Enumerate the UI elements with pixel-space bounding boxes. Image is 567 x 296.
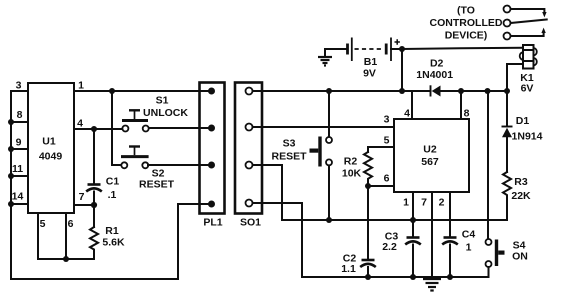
wire C1 bottom lead — [93, 192, 95, 206]
pushbutton S1 UNLOCK — [122, 95, 188, 132]
node U2 pin 8 junction — [458, 88, 464, 94]
pushbutton S4 ON — [486, 239, 528, 267]
wire S1 to PL1 pin 2 — [149, 127, 212, 129]
capacitor C1 — [86, 176, 119, 202]
diode D2 1N4001 — [402, 58, 461, 97]
svg-text:7: 7 — [421, 197, 427, 209]
svg-text:9V: 9V — [363, 68, 376, 80]
node pin8/bus junction — [8, 119, 14, 125]
svg-text:UNLOCK: UNLOCK — [143, 107, 188, 119]
resistor R3 22K — [503, 172, 531, 220]
wire U1 pin 9 stub — [11, 137, 28, 150]
wire C3 bottom lead — [412, 245, 414, 278]
wire relay NO contact — [511, 28, 546, 36]
svg-text:ON: ON — [512, 251, 528, 263]
wire SO1 pin 3 down to bus B — [253, 165, 283, 220]
wire relay NC contact — [511, 9, 547, 17]
wire U1 pin 1 to PL1 pin 1 — [74, 80, 212, 92]
wire C2 bottom lead — [367, 267, 369, 277]
wire left input bus — [10, 91, 12, 279]
wire battery to supply line — [401, 49, 403, 91]
node pin9/bus junction — [8, 146, 14, 152]
IC U2 567 body — [394, 119, 469, 192]
svg-text:S1: S1 — [156, 95, 169, 107]
svg-text:RESET: RESET — [271, 151, 307, 163]
svg-text:9: 9 — [16, 137, 22, 149]
node pin7/C1/R1 junction — [91, 202, 97, 208]
svg-text:6V: 6V — [521, 83, 534, 95]
svg-text:2: 2 — [439, 197, 445, 209]
node battery plus junction — [399, 46, 405, 52]
svg-text:B1: B1 — [364, 56, 378, 68]
wire S4 top lead — [487, 91, 489, 239]
node K1/D1 junction — [504, 88, 510, 94]
text TO CONTROLLED DEVICE — [430, 5, 503, 42]
svg-text:567: 567 — [421, 156, 439, 168]
svg-text:R3: R3 — [514, 176, 528, 188]
svg-text:7: 7 — [79, 191, 85, 203]
wire ground rail left — [11, 204, 212, 279]
svg-text:4049: 4049 — [39, 151, 63, 163]
wire U2 pin 8 — [461, 91, 470, 120]
wire U2 pin 5 to R2 — [368, 135, 394, 153]
node C1 top junction — [91, 126, 97, 132]
node S3 bottom junction — [326, 217, 332, 223]
svg-text:1: 1 — [466, 242, 472, 254]
svg-text:8: 8 — [17, 109, 23, 121]
wire bus B horizontal — [282, 219, 507, 221]
wire relay armature — [511, 20, 547, 24]
resistor R1 5.6K — [90, 205, 125, 259]
node R2/C2/pin6 junction — [365, 183, 371, 189]
svg-text:1: 1 — [78, 80, 84, 92]
capacitor C2 1.1 — [341, 253, 376, 276]
node pin1/bus B junction — [410, 217, 416, 223]
wire U1 pin 11 stub — [11, 163, 28, 176]
svg-text:3: 3 — [384, 114, 390, 126]
connector PL1 — [200, 83, 225, 229]
wire U2 pin 6 to R2 bottom — [368, 173, 394, 187]
wire S2 to PL1 pin 3 — [148, 164, 212, 166]
battery B1 9V — [325, 38, 402, 80]
svg-text:14: 14 — [12, 191, 24, 203]
wire U1 pin 14 stub — [11, 191, 28, 205]
resistor R2 10K — [342, 152, 372, 186]
wire C1 top lead — [93, 129, 95, 183]
wire U2 pin 7 to ground — [421, 192, 432, 278]
wire U1 pin 7 stub — [74, 191, 94, 205]
wire C2 top lead — [367, 186, 369, 259]
svg-text:R1: R1 — [105, 225, 119, 237]
node C4 ground junction — [447, 274, 453, 280]
svg-text:6: 6 — [384, 173, 390, 185]
wire supply to S4/K1 — [461, 90, 507, 92]
node S2 branch junction — [109, 88, 115, 94]
node pin14/bus junction — [8, 201, 14, 207]
node S4 line junction — [485, 88, 491, 94]
wire SO1 pin 1 to battery node — [253, 90, 403, 92]
svg-text:DEVICE): DEVICE) — [445, 30, 488, 42]
svg-text:2.2: 2.2 — [382, 241, 397, 253]
svg-text:C4: C4 — [462, 229, 476, 241]
svg-text:10K: 10K — [342, 168, 362, 180]
node pin6 junction — [63, 256, 69, 262]
relay K1 contact terminals — [504, 6, 511, 40]
svg-text:(TO: (TO — [457, 5, 475, 17]
wire SO1 pin 2 to U2 pin 3 — [253, 114, 395, 128]
svg-text:.1: .1 — [108, 189, 117, 201]
svg-text:4: 4 — [404, 108, 410, 120]
svg-text:CONTROLLED: CONTROLLED — [430, 17, 503, 29]
svg-text:D1: D1 — [516, 115, 530, 127]
wire U2 pin 1 / C3 — [403, 192, 413, 236]
connector SO1 — [235, 83, 262, 229]
svg-text:S3: S3 — [283, 138, 296, 150]
svg-text:1: 1 — [403, 197, 409, 209]
svg-text:5.6K: 5.6K — [102, 237, 125, 249]
relay coil K1 6V — [520, 45, 537, 95]
svg-text:6: 6 — [68, 218, 74, 230]
wire S2 branch from pin1 line — [112, 91, 122, 165]
svg-text:22K: 22K — [511, 190, 531, 202]
wire U2 pin 4 — [404, 91, 412, 120]
svg-text:1.1: 1.1 — [341, 263, 356, 275]
svg-text:11: 11 — [12, 163, 23, 175]
svg-text:3: 3 — [16, 80, 22, 92]
diode D1 1N914 — [502, 91, 543, 172]
svg-text:D2: D2 — [430, 58, 444, 70]
node pin11/bus junction — [8, 173, 14, 179]
svg-text:U2: U2 — [423, 144, 437, 156]
pushbutton S3 RESET — [271, 91, 332, 220]
svg-text:PL1: PL1 — [203, 217, 222, 229]
svg-text:SO1: SO1 — [240, 217, 261, 229]
wire U1 pin 4 to S1 — [74, 118, 122, 130]
pushbutton S2 RESET — [121, 147, 175, 191]
wire C4 bottom lead — [449, 245, 451, 278]
svg-text:R2: R2 — [344, 156, 358, 168]
svg-text:5: 5 — [40, 218, 46, 230]
wire U1 pin 3 stub — [11, 80, 28, 92]
wire U2 pin 2 / C4 — [439, 192, 450, 236]
capacitor C3 2.2 — [382, 231, 421, 254]
wire U1 pins 5,6 to R1 bottom — [38, 213, 94, 259]
node supply junction — [399, 88, 405, 94]
node S3 top junction — [326, 88, 332, 94]
svg-text:1N4001: 1N4001 — [416, 69, 453, 81]
ground main — [423, 279, 441, 291]
svg-text:1N914: 1N914 — [512, 131, 543, 143]
IC U1 4049 body — [28, 83, 74, 213]
node C2 ground junction — [365, 274, 371, 280]
wire S4 bottom lead — [488, 267, 490, 277]
ground battery — [318, 49, 332, 66]
wire SO1 pin 4 to ground rail right — [253, 203, 489, 277]
node C3 ground junction — [410, 274, 416, 280]
svg-text:4: 4 — [77, 118, 83, 130]
svg-text:5: 5 — [384, 135, 390, 147]
wire U1 pin 8 stub — [11, 109, 28, 122]
wire K1 bottom lead — [507, 64, 523, 91]
svg-text:RESET: RESET — [139, 179, 175, 191]
wire battery plus to K1 — [402, 48, 523, 49]
svg-text:U1: U1 — [42, 136, 56, 148]
svg-text:8: 8 — [464, 108, 470, 120]
svg-text:C1: C1 — [106, 176, 120, 188]
capacitor C4 1 — [442, 229, 475, 254]
